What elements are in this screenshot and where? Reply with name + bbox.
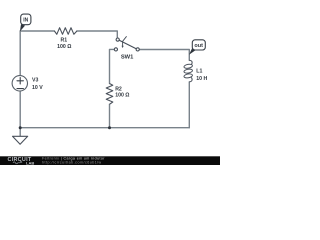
svg-text:L1: L1 xyxy=(196,69,202,75)
resistor R2 xyxy=(106,84,113,105)
wire top-right of R1 to switch drop xyxy=(77,31,117,38)
svg-text:IN: IN xyxy=(23,17,28,23)
svg-text:R1: R1 xyxy=(60,38,67,44)
svg-text:http://circuitlab.com/c6ub1lw: http://circuitlab.com/c6ub1lw xyxy=(42,160,102,164)
footer black bar xyxy=(0,156,220,165)
node flag IN box xyxy=(21,14,31,25)
junction at R2 on bottom wire xyxy=(108,126,111,129)
wire L1 bottom lead xyxy=(188,82,190,128)
wire R2 bottom lead xyxy=(109,104,111,127)
switch toggle arrow xyxy=(123,36,127,46)
svg-text:10 H: 10 H xyxy=(196,76,207,82)
wire left vertical to V3 top xyxy=(19,31,21,76)
ground xyxy=(13,136,28,144)
svg-text:V3: V3 xyxy=(32,77,38,83)
svg-text:100 Ω: 100 Ω xyxy=(115,93,129,99)
svg-text:10 V: 10 V xyxy=(32,85,43,91)
voltage source V3 xyxy=(12,76,27,91)
svg-text:LAB: LAB xyxy=(26,160,34,165)
node flag out box xyxy=(192,40,205,50)
node flag out pointer xyxy=(189,48,196,54)
wire switch common to out corner and down xyxy=(139,50,189,61)
svg-text:100 Ω: 100 Ω xyxy=(57,44,71,50)
resistor R1 xyxy=(54,28,77,35)
wire bottom horizontal xyxy=(20,127,189,129)
wire switch left throw to R2 top xyxy=(110,49,115,83)
switch SW1 xyxy=(114,38,139,51)
svg-text:out: out xyxy=(194,43,203,49)
wire top-left horizontal xyxy=(20,30,54,32)
svg-text:SW1: SW1 xyxy=(121,55,134,61)
wire V3 bottom to junction xyxy=(19,91,21,128)
node flag IN pointer xyxy=(20,24,25,31)
switch lever xyxy=(119,40,136,48)
inductor L1 xyxy=(184,60,193,82)
junction at V3/ground on bottom wire xyxy=(19,126,22,129)
wire ground stem xyxy=(19,128,21,137)
